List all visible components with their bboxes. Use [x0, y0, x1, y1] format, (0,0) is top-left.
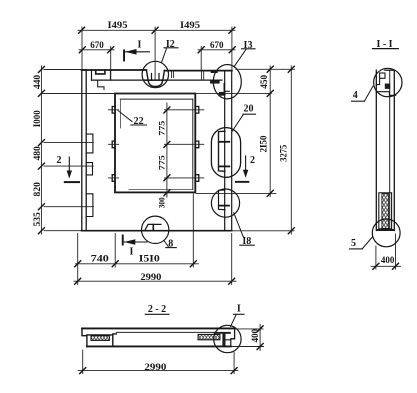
- svg-text:I5I0: I5I0: [139, 254, 160, 264]
- ext right bottom: [232, 230, 294, 232]
- label 5 leader: [363, 237, 373, 249]
- left edge notch 2: [86, 163, 92, 175]
- section marker I top: bar: [123, 49, 125, 61]
- ext bottom 740: [114, 234, 116, 268]
- anchor hatch strip: [382, 194, 389, 229]
- tick: [152, 27, 158, 33]
- label 20 underline: [243, 113, 256, 115]
- right end T vertical: [222, 332, 225, 346]
- joint step symbol: [145, 224, 161, 229]
- tick: [108, 47, 114, 53]
- tick: [257, 344, 263, 350]
- top edge tab B: [201, 71, 203, 81]
- pocket bottom thick: [144, 79, 166, 81]
- panel bottom edge: [82, 230, 232, 232]
- top edge tab A: [172, 71, 174, 78]
- svg-text:450: 450: [259, 74, 269, 88]
- lifting loop bar: [148, 81, 162, 87]
- opening inner top line: [120, 98, 193, 100]
- bottom dim line 740/1510: [76, 263, 199, 265]
- tick: [198, 47, 204, 53]
- svg-text:440: 440: [33, 75, 43, 90]
- tick 775 top: [164, 107, 170, 113]
- svg-text:2 - 2: 2 - 2: [148, 304, 166, 315]
- ext top left corner: [81, 27, 83, 70]
- row line 3: [108, 177, 203, 179]
- svg-text:I: I: [130, 247, 134, 258]
- tick: [229, 27, 235, 33]
- tick 450 top: [267, 66, 273, 72]
- detail circle 4: [374, 68, 402, 96]
- label 5 underline: [350, 248, 363, 250]
- label I leader: [231, 315, 237, 327]
- I3 corner step: [224, 84, 229, 92]
- svg-text:2I50: 2I50: [259, 135, 269, 152]
- tick: [75, 261, 81, 267]
- label I2 underline: [164, 47, 178, 49]
- column inner line: [389, 70, 391, 230]
- svg-text:2990: 2990: [144, 363, 166, 373]
- lower slot channel: [219, 190, 225, 210]
- label I2 leader: [162, 49, 167, 63]
- right dim line 3275: [290, 66, 292, 234]
- tick: [373, 263, 379, 269]
- ext left 480/1000: [44, 142, 93, 144]
- ext top mid: [154, 27, 156, 80]
- section marker 2 right: bar: [235, 181, 249, 183]
- label 8 leader: [164, 241, 168, 247]
- top-left corner pocket: [92, 70, 111, 80]
- row line 1: [108, 109, 203, 111]
- right end T horizontal: [214, 332, 231, 334]
- svg-text:670: 670: [210, 41, 224, 51]
- left pocket: [87, 334, 116, 346]
- tick: [257, 326, 263, 332]
- left dim line: [40, 66, 42, 234]
- tick 3275 top: [288, 66, 294, 72]
- opening tab left row3: [112, 175, 115, 182]
- section marker 2 right: arrow: [243, 170, 248, 178]
- label 20 leader: [232, 114, 244, 131]
- title I-I underline: [373, 48, 399, 50]
- 2990 ext left (2-2): [82, 350, 84, 374]
- tick: [112, 261, 118, 267]
- lower slot anchor tick: [219, 205, 229, 207]
- bottom dim line 2990: [74, 280, 236, 282]
- I3 plate mid: [210, 80, 220, 83]
- opening inner bottom line: [129, 189, 193, 191]
- section marker I top: line: [124, 51, 150, 53]
- svg-text:480: 480: [33, 146, 43, 161]
- ext 670 right inner: [200, 47, 202, 71]
- tick: [79, 27, 85, 33]
- detail circle I (2-2): [214, 325, 241, 352]
- label I3 underline: [242, 48, 256, 50]
- bar bottom edge: [87, 345, 231, 347]
- ext left bottom: [44, 230, 82, 232]
- section marker I bottom: arrow: [124, 239, 135, 245]
- svg-text:I000: I000: [33, 110, 43, 127]
- tick: [38, 90, 44, 96]
- lifting loop wire legs: [152, 74, 160, 81]
- opening inner left line (partial): [120, 99, 122, 128]
- ext right top: [236, 68, 295, 70]
- panel right edge outer: [231, 71, 233, 231]
- svg-text:670: 670: [90, 41, 104, 51]
- detail circle I2: [142, 61, 168, 87]
- panel left edge inner: [85, 70, 87, 231]
- detail circle I8: [211, 189, 239, 217]
- panel top edge: [82, 69, 232, 72]
- top-left corner lip: [96, 70, 105, 74]
- slot 20 anchor tick lower: [219, 165, 229, 167]
- 400 ext right: [395, 234, 397, 269]
- 400 ext top (2-2): [235, 328, 263, 330]
- 2990 dim line (2-2): [78, 370, 238, 372]
- opening outer rect: [115, 94, 195, 193]
- top detail embed square: [385, 84, 390, 89]
- label 22 leader: [118, 111, 132, 122]
- ext top right corner: [231, 27, 233, 71]
- tick: [38, 204, 44, 210]
- section marker 2 left: bar: [64, 181, 80, 183]
- tick: [79, 47, 85, 53]
- svg-text:300: 300: [157, 197, 166, 208]
- tick: [38, 67, 44, 73]
- ext bottom 1510: [192, 194, 194, 267]
- tick 775 mid: [164, 141, 170, 147]
- top dim line 670 left: [79, 49, 114, 51]
- top dim line 1495+1495: [78, 29, 235, 31]
- svg-text:775: 775: [157, 155, 166, 170]
- bar right end edge: [231, 328, 235, 338]
- svg-text:3275: 3275: [278, 144, 288, 161]
- tick: [38, 140, 44, 146]
- ext left 440 top: [44, 69, 86, 71]
- tick: [231, 368, 237, 374]
- left edge notch 1: [86, 134, 93, 153]
- title 2-2 underline: [145, 313, 169, 315]
- panel inner top line: [92, 79, 223, 81]
- tick: [75, 278, 81, 284]
- 400 dim line: [371, 265, 401, 267]
- long line at opening top level: [42, 92, 271, 94]
- tick: [38, 228, 44, 234]
- I3 plate low: [219, 92, 225, 96]
- right hatch plate: [198, 334, 220, 339]
- svg-text:I: I: [237, 303, 241, 314]
- opening tab right row2: [195, 141, 198, 148]
- detail circle I3: [213, 65, 241, 99]
- section marker 2 left: stem: [68, 157, 70, 177]
- svg-text:2: 2: [57, 155, 62, 166]
- label I8 underline: [240, 244, 255, 246]
- ext left 820/480: [44, 165, 93, 167]
- svg-text:400: 400: [381, 256, 395, 266]
- 2990 ext right (2-2): [233, 353, 235, 374]
- panel right edge inner: [224, 71, 226, 231]
- stadium slot 20: [211, 128, 240, 178]
- top detail bottom lines: [376, 92, 395, 96]
- panel left edge outer: [81, 70, 83, 231]
- tick: [38, 163, 44, 169]
- lifting loop pocket I2: [146, 70, 164, 80]
- top-left corner step: [98, 80, 104, 89]
- ext bottom right: [231, 234, 233, 285]
- bar left end: [82, 328, 87, 346]
- opening tab right row3: [195, 175, 198, 182]
- detail circle 8 (bottom joint): [142, 216, 169, 243]
- label 4 underline: [352, 100, 365, 102]
- column left edge: [375, 70, 377, 230]
- svg-text:2990: 2990: [140, 273, 161, 283]
- anchor hatch rect outline: [379, 193, 392, 229]
- label I8 leader: [234, 213, 244, 238]
- tick: [190, 261, 196, 267]
- opening tab left row1: [112, 107, 115, 114]
- column bottom bar: [377, 229, 395, 231]
- column top cap: [385, 69, 394, 71]
- svg-text:5: 5: [351, 238, 356, 249]
- section marker I bottom: line: [123, 241, 147, 243]
- ext bottom left: [77, 234, 79, 285]
- I3 plate top: [211, 71, 218, 73]
- left edge notch 3: [86, 194, 93, 217]
- row line 2: [108, 143, 203, 145]
- column right edge: [393, 70, 395, 230]
- tick: [229, 47, 235, 53]
- svg-text:2: 2: [250, 155, 255, 166]
- svg-text:775: 775: [157, 121, 166, 136]
- right dim line 450/2150: [269, 66, 271, 197]
- tick: [229, 278, 235, 284]
- section marker I bottom: bar: [122, 235, 124, 246]
- top dim line 670 right: [198, 49, 235, 51]
- long line at opening bottom level: [196, 192, 276, 194]
- section marker I top: arrow: [125, 49, 136, 55]
- label 4 leader: [365, 86, 373, 101]
- svg-text:820: 820: [33, 182, 43, 197]
- bar inner line: [116, 331, 213, 333]
- tick: [80, 368, 86, 374]
- opening tab left row2: [112, 141, 115, 148]
- svg-text:20: 20: [244, 104, 254, 115]
- tick 2150 bottom: [267, 190, 273, 196]
- right end notch: [226, 340, 231, 347]
- slot 20 anchor tick upper: [219, 141, 229, 143]
- label I underline: [234, 313, 245, 315]
- top detail step: [376, 78, 379, 84]
- inner vertical dim line 775/775/300: [166, 103, 168, 197]
- tick 300 bottom: [164, 190, 170, 196]
- opening inner right line: [192, 99, 194, 190]
- svg-text:I495: I495: [180, 21, 200, 31]
- tick 775 bottom: [164, 175, 170, 181]
- ext 670 left inner: [110, 47, 112, 81]
- 400 ext left: [375, 246, 377, 269]
- top detail small rect: [380, 73, 385, 78]
- section marker 2 right: stem: [245, 156, 247, 176]
- tick: [393, 263, 399, 269]
- ext left 535/820: [44, 206, 94, 208]
- bar top edge: [82, 327, 235, 329]
- svg-text:740: 740: [91, 254, 109, 264]
- ext left 1000/440: [44, 92, 115, 94]
- svg-text:400: 400: [250, 328, 260, 342]
- label 22 underline: [131, 124, 147, 126]
- label 8 underline: [166, 247, 177, 249]
- detail circle 5: [372, 219, 400, 247]
- svg-text:4: 4: [353, 90, 358, 101]
- opening tab right row1: [195, 107, 198, 114]
- svg-text:I495: I495: [108, 21, 128, 31]
- label I3 leader: [235, 50, 247, 67]
- svg-text:I: I: [138, 40, 142, 51]
- tick 3275 bottom: [288, 228, 294, 234]
- 400 ext bottom (2-2): [231, 346, 264, 348]
- tick 450/2150: [267, 90, 273, 96]
- slot 20 channel: [219, 131, 225, 171]
- section marker 2 left: arrow: [67, 171, 72, 179]
- joint step tick: [152, 225, 154, 231]
- left hatch plate: [91, 336, 109, 341]
- svg-text:535: 535: [33, 212, 43, 227]
- 400 dim line (2-2): [259, 325, 261, 351]
